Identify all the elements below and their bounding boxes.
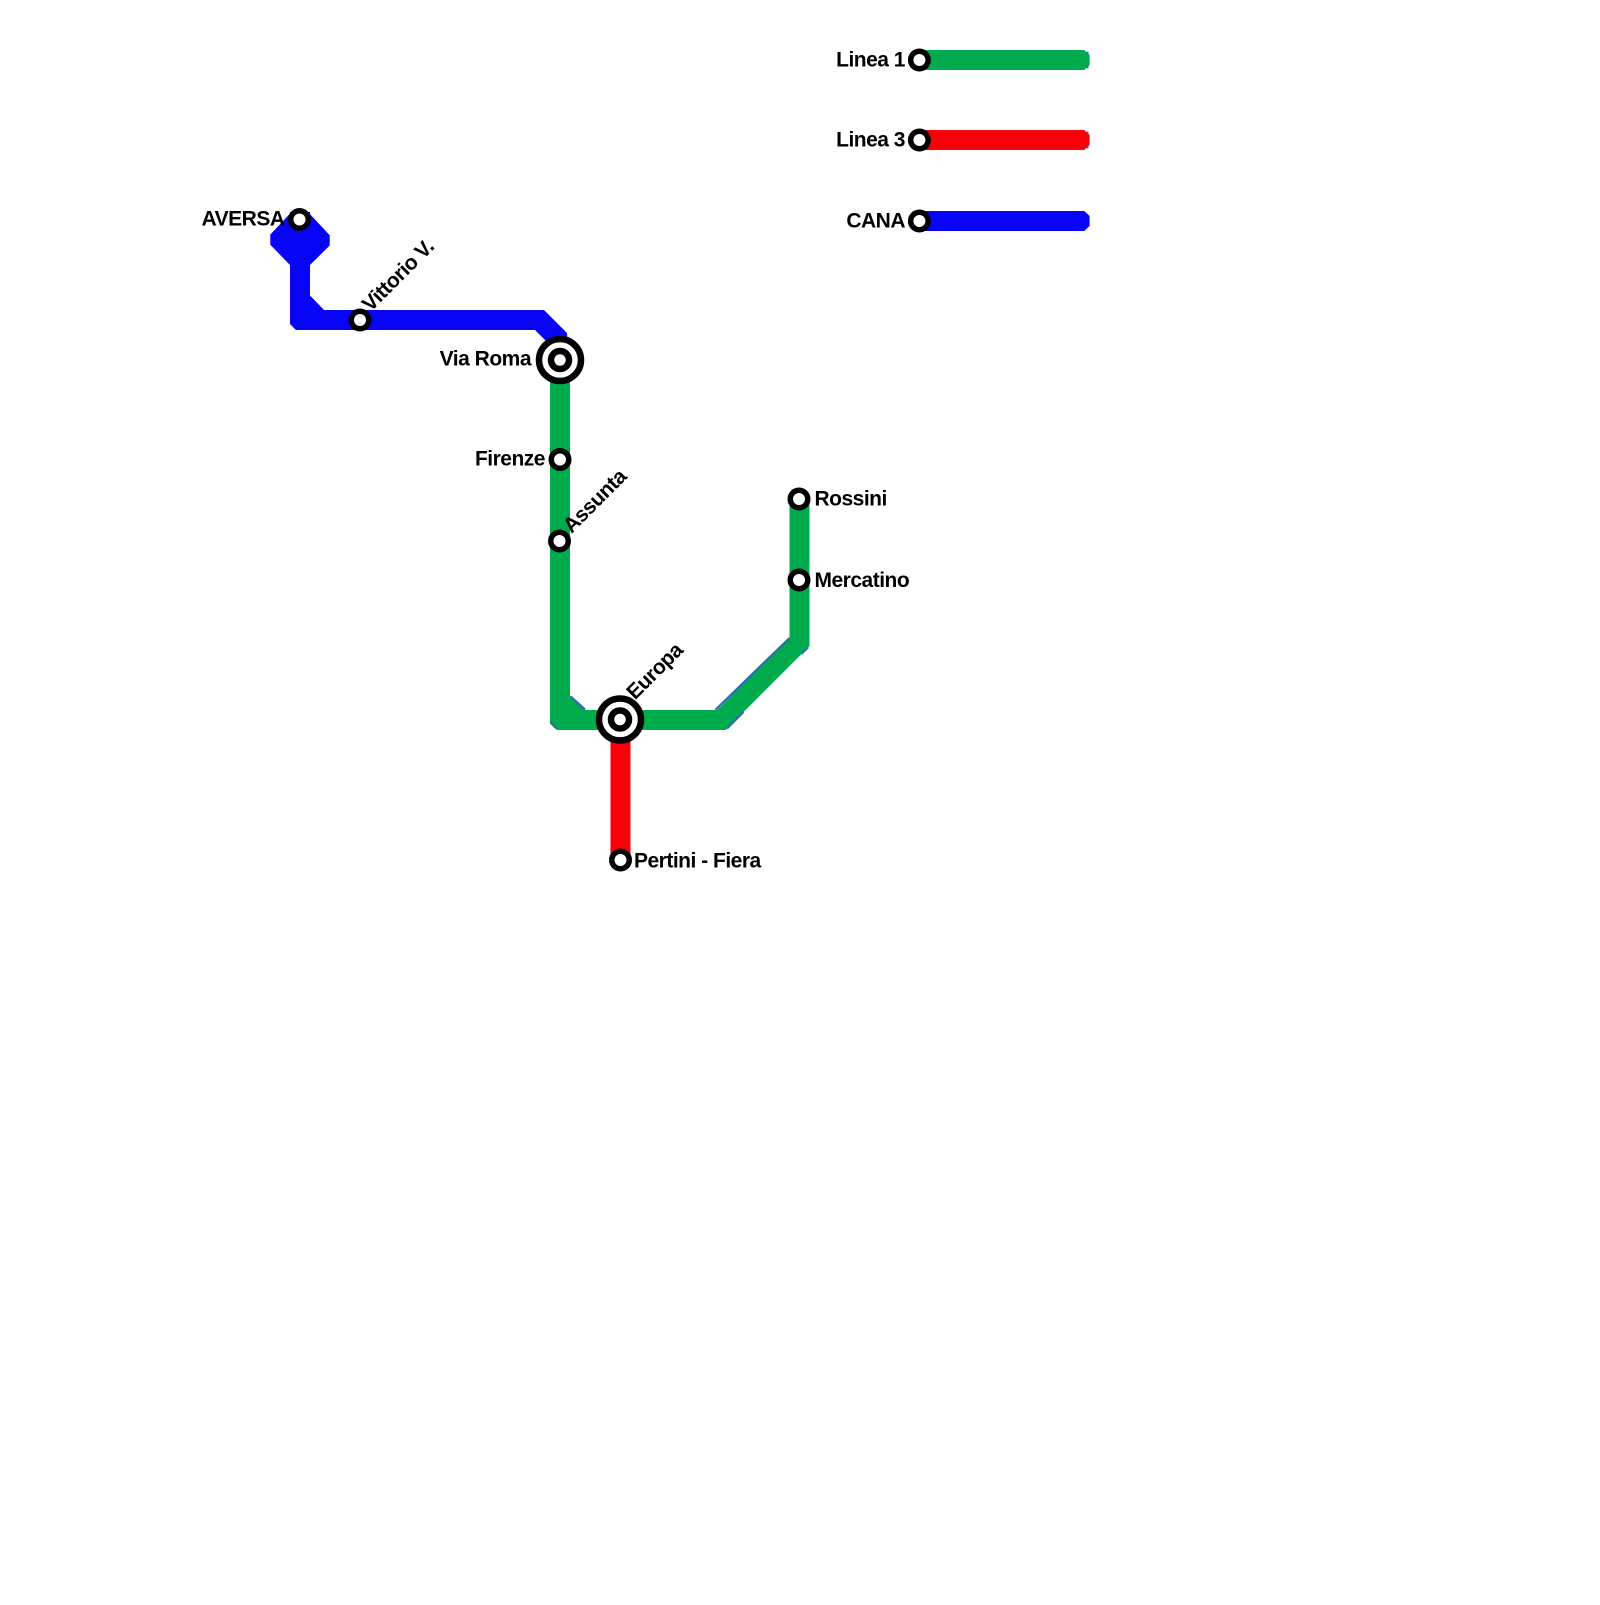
svg-text:Firenze: Firenze	[475, 448, 545, 471]
station Pertini - Fiera	[612, 851, 630, 869]
svg-text:Mercatino: Mercatino	[815, 569, 910, 592]
svg-text:Linea 3: Linea 3	[836, 129, 905, 152]
svg-text:Pertini - Fiera: Pertini - Fiera	[634, 850, 762, 873]
wire: thin blue artifact lower-right edge bottom part	[727, 712, 744, 729]
wire: thin blue artifact at outer corner	[551, 723, 557, 729]
wire: Linea 3 red line (Europa to Pertini-Fiera)	[611, 720, 631, 860]
station Europa (interchange)	[599, 699, 641, 741]
station Firenze	[551, 451, 569, 469]
wire: CANA blue line main polygon (AVERSA to Via Roma)	[290, 212, 568, 348]
svg-text:Rossini: Rossini	[815, 488, 887, 511]
station Via Roma (interchange)	[539, 339, 581, 381]
legend entry Linea 1	[836, 49, 1089, 72]
legend entry CANA	[846, 210, 1089, 233]
wire: CANA blue line diamond joint at AVERSA	[270, 212, 329, 265]
svg-text:Via Roma: Via Roma	[440, 348, 532, 371]
wire: thin blue artifact along diagonal upper-left edge	[716, 638, 790, 710]
station Assunta	[551, 532, 569, 550]
legend entry Linea 3	[836, 129, 1089, 152]
station Vittorio V.	[351, 311, 369, 329]
svg-text:Linea 1: Linea 1	[836, 49, 906, 72]
station AVERSA	[291, 211, 309, 229]
svg-text:AVERSA: AVERSA	[202, 208, 285, 231]
wire: thin blue artifact lower-right edge top part	[802, 647, 809, 654]
wire: Linea 1 green line polygon (Via Roma - Europa - Rossini)	[550, 360, 810, 730]
station Mercatino	[790, 571, 808, 589]
svg-text:CANA: CANA	[846, 210, 905, 233]
station Rossini	[790, 490, 808, 508]
wire: thin blue artifact at Europa corner chamfer	[571, 697, 586, 710]
